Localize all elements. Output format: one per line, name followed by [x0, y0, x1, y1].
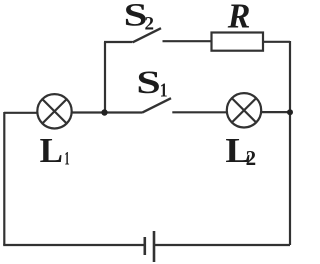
svg-text:2: 2 [246, 146, 257, 170]
svg-text:1: 1 [64, 148, 69, 169]
svg-text:L: L [40, 131, 63, 170]
svg-text:S: S [136, 64, 160, 101]
svg-text:1: 1 [160, 79, 168, 101]
svg-text:2: 2 [145, 14, 155, 35]
svg-text:R: R [227, 0, 251, 36]
